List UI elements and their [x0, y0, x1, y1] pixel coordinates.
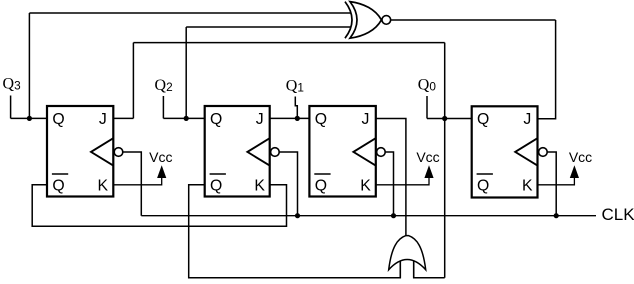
U2 clock bubble	[271, 148, 280, 157]
wire OR input A stub	[399, 261, 401, 278]
U1 clock bubble	[114, 148, 123, 157]
node U2 clock on CLK bus	[295, 213, 300, 218]
wire XNOR output horizontal	[391, 19, 556, 21]
U4 clock bubble	[539, 148, 548, 157]
flip-flop U4 box	[472, 106, 538, 197]
wire U2 clock to bus	[279, 152, 297, 216]
wire Q0 drop to OR input B	[444, 119, 446, 278]
wire Q3 riser to XNOR input A	[28, 13, 30, 118]
wire J1 feedback horizontal	[133, 42, 444, 44]
svg-text:K: K	[98, 177, 109, 194]
U1 clock edge triangle	[91, 138, 113, 165]
U2 clock edge triangle	[247, 138, 269, 165]
wire XNOR input B horizontal	[186, 26, 350, 28]
wire U2 Qbar to OR input A	[189, 185, 401, 278]
svg-text:Q: Q	[315, 111, 327, 128]
wire U3 J to OR gate output	[376, 119, 406, 236]
svg-text:Q: Q	[477, 177, 489, 194]
svg-text:CLK: CLK	[602, 205, 634, 224]
gate XNOR extra input arc	[345, 2, 352, 39]
svg-text:Q: Q	[477, 111, 489, 128]
flip-flop U1 box	[47, 106, 113, 197]
flip-flop U2 box	[205, 106, 270, 197]
wire Q0 riser to J1 feedback line	[444, 43, 446, 119]
gate XNOR output bubble	[382, 16, 391, 25]
svg-text:Q2: Q2	[155, 77, 173, 94]
gate XNOR body	[350, 2, 381, 39]
node Q1 junction	[295, 116, 300, 121]
svg-text:Q1: Q1	[286, 78, 304, 95]
power Vcc 1 arrow	[157, 165, 166, 178]
wire U1 J pin	[113, 117, 133, 119]
node U3 clock on CLK bus	[391, 213, 396, 218]
svg-text:Vcc: Vcc	[569, 149, 592, 165]
svg-text:J: J	[362, 111, 370, 128]
wire OR input B stub	[413, 261, 415, 278]
svg-text:J: J	[256, 111, 264, 128]
node Q2 junction	[184, 116, 189, 121]
wire U4 clock to bus	[547, 152, 556, 216]
wire OR input B feed	[414, 261, 445, 278]
svg-text:Q: Q	[315, 177, 327, 194]
svg-text:Q: Q	[210, 111, 222, 128]
gate OR body	[389, 236, 426, 270]
svg-text:Q: Q	[210, 177, 222, 194]
node U4 clock on CLK bus	[554, 213, 559, 218]
svg-text:J: J	[523, 111, 531, 128]
svg-text:K: K	[360, 177, 371, 194]
wire U4 K to Vcc	[538, 178, 575, 185]
wire Q0 label stub	[426, 96, 428, 119]
wire Q0 output to U4 Q pin	[427, 118, 472, 120]
wire J1 feedback drop to U1 J	[132, 43, 134, 119]
svg-text:Vcc: Vcc	[416, 149, 439, 165]
wire U1 K to Vcc	[113, 178, 161, 185]
power Vcc 2 arrow	[424, 165, 433, 178]
wire Q1 net U3 Q to U2 J	[270, 117, 310, 119]
wire Q2 riser to XNOR input B	[185, 27, 187, 118]
svg-text:Q: Q	[52, 111, 64, 128]
svg-text:Q: Q	[52, 177, 64, 194]
power Vcc 3 arrow	[570, 165, 579, 178]
U3 clock edge triangle	[353, 138, 375, 165]
svg-text:K: K	[254, 177, 265, 194]
wire Q1 label stub	[295, 97, 297, 119]
wire U3 clock to bus	[385, 152, 393, 216]
wire Q2 output to U2 Q pin	[163, 117, 204, 119]
node Q0 junction	[442, 116, 447, 121]
svg-text:Q0: Q0	[418, 77, 437, 94]
svg-text:Vcc: Vcc	[149, 149, 172, 165]
U4 clock edge triangle	[515, 138, 537, 165]
svg-text:K: K	[522, 177, 533, 194]
wire CLK bus	[141, 215, 596, 217]
node Q3 junction	[27, 116, 32, 121]
wire U1 clock to bus	[123, 152, 142, 216]
wire Q3 output to U1 Q pin	[11, 117, 47, 119]
svg-text:J: J	[99, 111, 107, 128]
U3 clock bubble	[377, 148, 386, 157]
wire Q2 label stub	[162, 96, 164, 118]
wire U3 K to Vcc	[376, 178, 429, 185]
wire Q3 label stub	[10, 96, 12, 119]
wire U4 J from XNOR output	[538, 20, 556, 119]
wire XNOR input A horizontal	[29, 12, 350, 14]
flip-flop U3 box	[309, 106, 375, 197]
svg-text:Q3: Q3	[3, 76, 22, 93]
wire U1 Qbar to U2 K link	[32, 185, 286, 226]
